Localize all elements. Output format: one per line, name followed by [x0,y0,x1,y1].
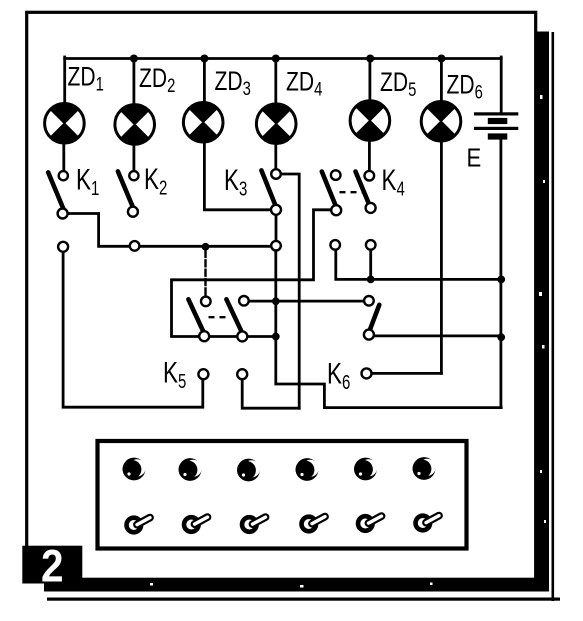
socket A left [58,242,68,252]
terminal K5 left top [201,297,211,307]
battery E plate 2 short thick [488,133,508,139]
outer frame [27,12,536,579]
lamp ZD4 [256,104,296,144]
right shadow bar [537,32,549,592]
terminal K3 bottom [271,205,281,215]
key switch 3 [242,517,266,532]
terminal K6 top [364,296,374,306]
indicator lamp 4 [296,458,319,481]
battery E plate 1 long [474,112,518,115]
key switch 6 [416,516,440,531]
key switch 2 [184,517,208,532]
wire bus to ZD1 [63,57,66,104]
wire K6 terminal to ZD6 column [372,372,442,375]
wire K4 left pole bottom to lower-left net [172,210,332,337]
terminal K5 plug left [198,369,208,379]
node battery column upper [497,276,505,284]
battery E plate 2 long [474,127,518,130]
wire socket under K4 right pole [369,250,372,280]
indicator lamp 6 [413,457,436,480]
socket under K4 right [366,240,376,250]
SWITCHES [48,169,379,379]
terminal K4 left bottom [331,205,341,215]
svg-text:2: 2 [41,542,64,592]
node bus-ZD3 [200,55,208,63]
wire bus to ZD5 [368,59,371,102]
shadow texture specks [150,95,546,588]
wire K6 bottom to right bus [374,334,501,337]
wire K3 bottom to socket B [275,215,278,241]
switch K4 right lever [356,172,370,206]
indicator lamp 2 [179,458,202,481]
socket under K4 left [330,240,340,250]
terminal K1 top [59,171,68,180]
key switch 1 [127,518,151,533]
bottom shadow bar [44,578,549,592]
node column B / K5 bottom wire [272,333,280,341]
wire ZD2 to K2 [132,144,135,172]
node battery column lower [497,333,505,341]
switch K2 lever [118,171,133,206]
panel box [98,441,467,549]
terminal K4 right top [365,171,375,181]
svg-text:E: E [467,144,482,173]
terminal K3 top [271,169,281,179]
wire ZD6 down to K6 terminal wire [440,141,443,374]
node K4 socket wire [367,276,375,284]
BATTERY [474,112,518,139]
switch K5 right lever [226,299,242,332]
terminal K1 bottom [58,209,68,219]
battery E plate 1 short thick [488,118,508,124]
wire ZD4 to K3 top [274,143,277,169]
switch K6 lever [369,305,379,331]
wire bus to ZD3 [203,59,206,104]
switch K4 gang link [340,191,363,193]
wire K4 sockets to battery junction [336,250,501,280]
wire K3 top to long vertical [281,174,299,408]
terminal K5 right top [239,296,249,306]
wire bus to ZD6 [440,59,443,103]
key switch 4 [302,517,326,532]
indicator lamp 5 [354,458,377,481]
wire ZD5 to K4 right pole [368,140,371,171]
key switch 5 [358,516,382,531]
indicator lamp 3 [237,459,260,482]
wire bus to battery [500,57,503,113]
node column B / K6 top wire [272,297,280,305]
terminal K5 left bottom [199,331,209,341]
terminal K2 top [129,171,138,180]
indicator lamp 1 [123,458,146,481]
lamp ZD2 [115,105,155,145]
terminal K6 plug [362,368,372,378]
switch K5 left lever [188,299,203,332]
terminal K5 right bottom [237,331,247,341]
wire K1 bottom to socket row [67,214,271,247]
terminal K6 bottom [364,330,374,340]
lamp ZD1 [45,104,85,144]
LAMPS [45,101,461,144]
switch K1 lever [48,172,63,208]
node bus-ZD5 [366,55,374,63]
switch K5 gang link [209,316,227,318]
socket under K2 [130,241,140,251]
wire K5 right top to K6 top [249,300,364,303]
node bus-ZD4 [272,55,280,63]
lamp ZD3 [183,103,223,143]
wire battery minus down right side [499,140,502,408]
right thin edge line [552,32,555,601]
wire top bus [65,57,502,60]
wire node to K5 left pole (broken) [204,251,206,297]
PANEL [98,441,467,549]
node bus-ZD6 [437,55,445,63]
node bus-ZD2 [130,55,138,63]
wire socket B column down, jog, right bus to battery column [276,251,501,408]
wire ZD1 to K1 [62,143,65,171]
switch K3 lever [261,170,275,204]
wire ZD3 to K3 bottom [204,142,271,210]
wire bus to ZD4 [274,59,277,105]
lamp ZD5 [350,101,390,141]
lamp ZD6 [421,102,461,142]
terminal K4 right bottom [366,203,376,213]
terminal K2 bottom [128,207,138,217]
wire bus to ZD2 [132,59,135,106]
wire K5 right terminal down to long vertical [242,379,299,408]
terminal K5 plug right [237,369,247,379]
bottom thin edge line [47,598,560,601]
terminal K4 left top [331,170,341,180]
socket B under K3 [271,241,281,251]
wire left loop: socket A down, bottom left bus, up to K5 left terminal [63,252,203,408]
figure number plate [22,546,82,584]
switch K4 left lever [322,172,336,206]
node socket row / K5 left [202,243,210,251]
